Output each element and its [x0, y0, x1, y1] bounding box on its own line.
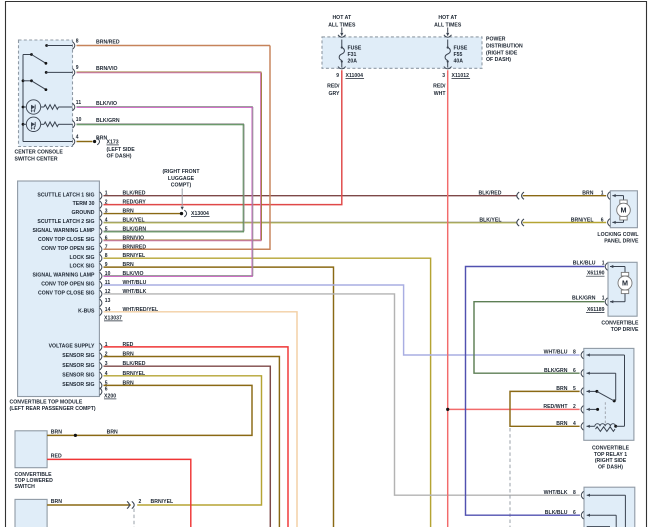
svg-text:HOT AT: HOT AT	[438, 15, 458, 21]
svg-text:OF DASH): OF DASH)	[486, 57, 511, 63]
svg-text:4: 4	[573, 421, 576, 427]
svg-text:TOP DRIVE: TOP DRIVE	[611, 327, 639, 333]
svg-text:BRN: BRN	[582, 191, 593, 197]
svg-text:BRN/RED: BRN/RED	[96, 39, 120, 45]
svg-text:1: 1	[602, 296, 605, 302]
svg-text:9: 9	[105, 262, 108, 268]
svg-text:PANEL DRIVE: PANEL DRIVE	[604, 238, 639, 244]
svg-text:POWER: POWER	[486, 37, 506, 43]
svg-text:1: 1	[105, 342, 108, 348]
svg-text:GRY: GRY	[328, 91, 340, 97]
svg-text:(RIGHT SIDE: (RIGHT SIDE	[486, 50, 518, 56]
svg-text:K-BUS: K-BUS	[78, 308, 95, 314]
svg-text:X61189: X61189	[587, 307, 605, 313]
svg-text:6: 6	[105, 387, 108, 393]
svg-text:BRN: BRN	[123, 209, 134, 215]
svg-text:WHT/BLU: WHT/BLU	[123, 280, 147, 286]
svg-text:6: 6	[573, 510, 576, 516]
svg-text:BLK/GRN: BLK/GRN	[96, 118, 120, 124]
svg-text:8: 8	[573, 490, 576, 496]
svg-text:5: 5	[105, 226, 108, 232]
svg-text:1: 1	[105, 191, 108, 197]
svg-text:2: 2	[573, 404, 576, 410]
svg-text:BLK/YEL: BLK/YEL	[479, 217, 501, 223]
svg-text:LOCKING COWL: LOCKING COWL	[597, 232, 638, 238]
svg-text:BRN/YEL: BRN/YEL	[151, 499, 174, 505]
svg-text:BLK/RED: BLK/RED	[123, 191, 146, 197]
svg-text:7: 7	[105, 244, 108, 250]
svg-text:VOLTAGE SUPPLY: VOLTAGE SUPPLY	[49, 344, 95, 350]
svg-text:8: 8	[76, 38, 79, 44]
svg-text:CONV TOP OPEN SIG: CONV TOP OPEN SIG	[41, 246, 94, 252]
svg-text:DISTRIBUTION: DISTRIBUTION	[486, 44, 523, 50]
svg-text:9: 9	[76, 65, 79, 71]
svg-text:CONV TOP OPEN SIG: CONV TOP OPEN SIG	[41, 282, 94, 288]
svg-text:6: 6	[105, 235, 108, 241]
svg-text:10: 10	[105, 271, 111, 277]
svg-text:3: 3	[105, 209, 108, 215]
svg-text:BRN: BRN	[556, 421, 567, 427]
svg-text:BLK/BLU: BLK/BLU	[545, 510, 568, 516]
svg-text:WHT/RED/YEL: WHT/RED/YEL	[123, 307, 159, 313]
svg-text:11: 11	[76, 100, 82, 106]
svg-text:BRN/YEL: BRN/YEL	[571, 217, 594, 223]
svg-text:COMPT): COMPT)	[171, 183, 192, 189]
svg-text:TOP LOWERED: TOP LOWERED	[15, 478, 54, 484]
svg-text:SENSOR SIG: SENSOR SIG	[62, 363, 94, 369]
svg-text:WHT: WHT	[434, 91, 447, 97]
svg-text:4: 4	[105, 217, 108, 223]
svg-text:CENTER CONSOLE: CENTER CONSOLE	[15, 150, 64, 156]
svg-text:WHT/BLK: WHT/BLK	[123, 289, 147, 295]
svg-text:CONVERTIBLE: CONVERTIBLE	[15, 472, 53, 478]
svg-text:BRN: BRN	[51, 430, 62, 436]
svg-text:14: 14	[105, 307, 111, 313]
svg-text:RED/: RED/	[327, 84, 340, 90]
svg-text:(LEFT REAR PASSENGER COMPT): (LEFT REAR PASSENGER COMPT)	[10, 406, 96, 412]
svg-text:(RIGHT FRONT: (RIGHT FRONT	[162, 169, 200, 175]
svg-text:CONVERTIBLE: CONVERTIBLE	[592, 446, 630, 452]
svg-text:RED/GRY: RED/GRY	[123, 200, 147, 206]
svg-text:F55: F55	[454, 52, 463, 58]
svg-text:X13004: X13004	[191, 211, 209, 217]
svg-text:(LEFT SIDE: (LEFT SIDE	[107, 147, 136, 153]
svg-text:SCUTTLE LATCH 1 SIG: SCUTTLE LATCH 1 SIG	[37, 192, 94, 198]
svg-text:BLK/BLU: BLK/BLU	[573, 260, 596, 266]
svg-text:BRN/VIO: BRN/VIO	[123, 235, 145, 241]
svg-text:SIGNAL WARNING LAMP: SIGNAL WARNING LAMP	[33, 273, 96, 279]
svg-text:CONVERTIBLE: CONVERTIBLE	[601, 320, 639, 326]
svg-text:WHT/BLU: WHT/BLU	[544, 350, 568, 356]
svg-text:BLK/GRN: BLK/GRN	[544, 368, 568, 374]
svg-text:10: 10	[76, 117, 82, 123]
svg-text:1: 1	[602, 260, 605, 266]
svg-text:BRN/VIO: BRN/VIO	[96, 66, 118, 72]
svg-text:BLK/VIO: BLK/VIO	[96, 101, 117, 107]
svg-text:6: 6	[573, 368, 576, 374]
svg-text:4: 4	[76, 134, 79, 140]
svg-text:TERM 30: TERM 30	[73, 201, 95, 207]
svg-text:F31: F31	[348, 52, 357, 58]
svg-text:ALL TIMES: ALL TIMES	[328, 23, 356, 29]
svg-text:BRN: BRN	[51, 499, 62, 505]
svg-text:6: 6	[601, 217, 604, 223]
svg-text:FUSE: FUSE	[348, 45, 362, 51]
svg-text:X13037: X13037	[104, 315, 122, 321]
svg-text:8: 8	[105, 253, 108, 259]
svg-text:SWITCH CENTER: SWITCH CENTER	[15, 157, 58, 163]
svg-text:3: 3	[442, 73, 445, 79]
svg-text:BRN/RED: BRN/RED	[123, 244, 147, 250]
svg-text:X173: X173	[107, 139, 119, 145]
svg-text:LUGGAGE: LUGGAGE	[168, 176, 195, 182]
svg-text:CONV TOP CLOSE SIG: CONV TOP CLOSE SIG	[38, 291, 94, 297]
svg-text:2: 2	[139, 499, 142, 505]
svg-text:5: 5	[105, 380, 108, 386]
svg-text:9: 9	[336, 73, 339, 79]
svg-text:LOCK SIG: LOCK SIG	[69, 255, 94, 261]
svg-text:OF DASH): OF DASH)	[107, 154, 132, 160]
svg-text:BRN: BRN	[556, 386, 567, 392]
svg-text:TOP RELAY 1: TOP RELAY 1	[594, 452, 627, 458]
svg-text:WHT/BLK: WHT/BLK	[544, 490, 568, 496]
svg-text:20A: 20A	[348, 58, 358, 64]
svg-text:X11004: X11004	[346, 73, 364, 79]
svg-text:CONV TOP CLOSE SIG: CONV TOP CLOSE SIG	[38, 237, 94, 243]
svg-text:BRN/YEL: BRN/YEL	[123, 253, 146, 259]
svg-text:BLK/GRN: BLK/GRN	[123, 226, 147, 232]
svg-text:8: 8	[573, 350, 576, 356]
svg-text:BRN: BRN	[123, 380, 134, 386]
svg-text:BLK/GRN: BLK/GRN	[572, 296, 596, 302]
svg-text:BRN: BRN	[123, 262, 134, 268]
svg-text:X11012: X11012	[452, 73, 470, 79]
svg-text:5: 5	[573, 386, 576, 392]
svg-text:SIGNAL WARNING LAMP: SIGNAL WARNING LAMP	[33, 228, 96, 234]
svg-text:(RIGHT SIDE: (RIGHT SIDE	[595, 458, 627, 464]
svg-text:M: M	[620, 206, 626, 215]
svg-text:BRN: BRN	[107, 430, 118, 436]
svg-text:1: 1	[601, 191, 604, 197]
svg-text:11: 11	[105, 280, 111, 286]
svg-text:HOT AT: HOT AT	[332, 15, 352, 21]
svg-text:X61190: X61190	[587, 271, 605, 277]
svg-text:BLK/YEL: BLK/YEL	[123, 217, 145, 223]
svg-text:SENSOR SIG: SENSOR SIG	[62, 372, 94, 378]
svg-text:BLK/RED: BLK/RED	[479, 191, 502, 197]
svg-text:SENSOR SIG: SENSOR SIG	[62, 382, 94, 388]
svg-text:2: 2	[105, 200, 108, 206]
svg-text:CONVERTIBLE TOP MODULE: CONVERTIBLE TOP MODULE	[10, 400, 83, 406]
svg-text:BRN/YEL: BRN/YEL	[123, 371, 146, 377]
svg-text:2: 2	[105, 352, 108, 358]
svg-text:RED: RED	[51, 454, 62, 460]
svg-text:3: 3	[105, 361, 108, 367]
svg-text:LOCK SIG: LOCK SIG	[69, 264, 94, 270]
svg-text:RED/: RED/	[433, 84, 446, 90]
svg-text:FUSE: FUSE	[454, 45, 468, 51]
svg-text:OF DASH): OF DASH)	[598, 464, 623, 470]
svg-text:13: 13	[105, 298, 111, 304]
svg-text:GROUND: GROUND	[72, 210, 95, 216]
svg-text:ALL TIMES: ALL TIMES	[434, 23, 462, 29]
svg-text:RED: RED	[123, 342, 134, 348]
svg-text:RED/WHT: RED/WHT	[543, 404, 568, 410]
svg-text:SCUTTLE LATCH 2 SIG: SCUTTLE LATCH 2 SIG	[37, 219, 94, 225]
svg-text:BLK/VIO: BLK/VIO	[123, 271, 144, 277]
svg-text:SWITCH: SWITCH	[15, 484, 36, 490]
svg-text:BRN: BRN	[123, 352, 134, 358]
svg-text:12: 12	[105, 289, 111, 295]
svg-text:M: M	[622, 279, 628, 288]
svg-text:X200: X200	[104, 393, 116, 399]
svg-text:SENSOR SIG: SENSOR SIG	[62, 353, 94, 359]
svg-text:BLK/RED: BLK/RED	[123, 361, 146, 367]
svg-text:40A: 40A	[454, 58, 464, 64]
svg-text:4: 4	[105, 371, 108, 377]
